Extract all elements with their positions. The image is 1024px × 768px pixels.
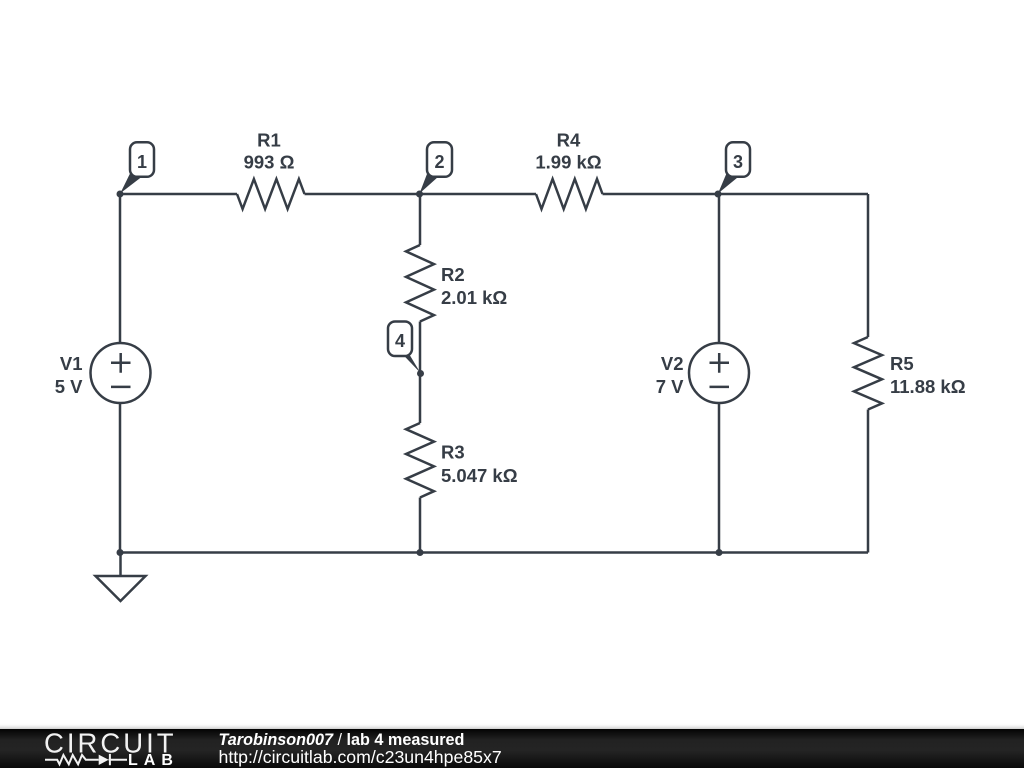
wire bottom rail — [120, 551, 868, 554]
resistor R2 — [406, 245, 434, 322]
svg-text:2: 2 — [434, 152, 444, 172]
wire node3 down to V2 — [718, 194, 721, 343]
footer bar — [0, 729, 1024, 768]
wire V2 bottom to bottom rail — [718, 403, 721, 553]
junction dot bottom middle — [417, 549, 424, 556]
svg-text:4: 4 — [395, 331, 405, 351]
junction dot node 3 — [715, 191, 722, 198]
svg-text:R5: R5 — [890, 353, 914, 374]
svg-text:1: 1 — [137, 152, 147, 172]
wire node1 down to V1 — [119, 194, 122, 343]
resistor R5 — [854, 337, 882, 410]
svg-text:1.99 kΩ: 1.99 kΩ — [535, 152, 601, 173]
svg-text:R2: R2 — [441, 264, 465, 285]
svg-text:http://circuitlab.com/c23un4hp: http://circuitlab.com/c23un4hpe85x7 — [219, 747, 502, 767]
resistor R4 — [536, 179, 603, 209]
svg-text:R4: R4 — [557, 130, 581, 151]
svg-text:V2: V2 — [661, 353, 684, 374]
svg-text:R3: R3 — [441, 442, 465, 463]
footer bar shadow — [0, 723, 1024, 729]
wire node2 down to R2 — [419, 194, 422, 245]
wire R3 to bottom rail — [419, 498, 422, 553]
svg-text:R1: R1 — [257, 130, 281, 151]
junction dot bottom left — [117, 549, 124, 556]
wire top rail node1 to R1 — [120, 193, 237, 196]
junction dot node 2 — [416, 191, 423, 198]
node 4 label — [388, 322, 421, 374]
resistor R3 — [406, 423, 434, 498]
wire top rail R4 to top-right corner — [603, 193, 869, 196]
wire R5 to bottom rail — [867, 410, 870, 553]
resistor R1 — [237, 179, 305, 209]
logo resistor-diode glyph — [45, 754, 127, 765]
node 2 label — [420, 142, 453, 193]
svg-text:2.01 kΩ: 2.01 kΩ — [441, 287, 507, 308]
svg-text:3: 3 — [733, 152, 743, 172]
svg-text:V1: V1 — [60, 353, 83, 374]
wire V1 bottom to bottom rail — [119, 403, 122, 553]
voltage source V1 — [91, 343, 151, 403]
node 3 label — [718, 142, 750, 193]
svg-text:7 V: 7 V — [656, 376, 684, 397]
svg-text:993 Ω: 993 Ω — [244, 152, 295, 173]
svg-text:11.88 kΩ: 11.88 kΩ — [890, 376, 966, 397]
ground — [96, 553, 146, 602]
svg-text:LAB: LAB — [128, 752, 179, 768]
junction dot node 4 — [417, 370, 424, 377]
wire top-right corner down to R5 — [867, 194, 870, 337]
svg-text:5 V: 5 V — [55, 376, 83, 397]
junction dot node 1 — [117, 191, 124, 198]
node 1 label — [120, 142, 154, 193]
junction dot bottom V2 — [716, 549, 723, 556]
wire top rail R1 to R4 through node 2 — [305, 193, 537, 196]
svg-text:5.047 kΩ: 5.047 kΩ — [441, 465, 518, 486]
wire R2 to R3 through node 4 — [419, 322, 422, 424]
voltage source V2 — [689, 343, 749, 403]
